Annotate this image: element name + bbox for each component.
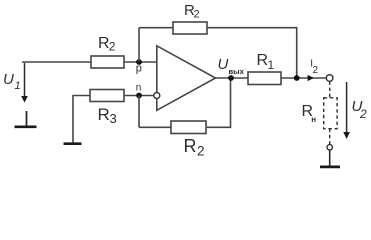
dashed lead from load: [329, 129, 331, 145]
resistor R3: [90, 90, 124, 102]
svg-text:2: 2: [194, 9, 200, 21]
svg-text:p: p: [136, 63, 142, 75]
wire R3 to ground: [73, 96, 90, 143]
wire op-amp output: [216, 77, 249, 79]
resistor R2 left: [91, 56, 124, 68]
ground input: [15, 111, 37, 127]
wire p node up to top feedback: [138, 28, 140, 62]
svg-text:вых: вых: [229, 67, 245, 76]
svg-text:R: R: [184, 136, 197, 156]
svg-text:1: 1: [15, 80, 21, 92]
svg-text:2: 2: [197, 144, 205, 159]
svg-text:1: 1: [268, 58, 275, 72]
svg-text:R: R: [257, 52, 269, 69]
node Uvyh: [228, 75, 234, 81]
svg-text:U: U: [218, 56, 229, 73]
resistor R2 top: [173, 22, 207, 34]
node n: [136, 93, 142, 99]
wire top feedback left: [139, 27, 173, 29]
wire bottom feedback left: [139, 126, 171, 128]
svg-text:2: 2: [109, 40, 116, 54]
wire R3 to op-amp n input: [124, 95, 153, 97]
svg-text:н: н: [311, 115, 316, 124]
wire bottom feedback right: [206, 78, 231, 127]
svg-text:U: U: [3, 71, 14, 88]
ground output: [320, 166, 340, 169]
dashed lead to load: [329, 81, 331, 97]
wire top feedback right: [207, 28, 297, 78]
voltage arrow U1: [21, 63, 28, 103]
terminal bottom: [327, 145, 332, 150]
voltage arrow U2: [343, 82, 350, 139]
wire R1 to output terminal: [281, 77, 326, 79]
terminal top: [326, 75, 333, 82]
ground R3: [64, 142, 82, 145]
svg-text:2: 2: [359, 107, 367, 121]
inverting input bubble: [154, 93, 160, 99]
wire terminal to ground: [329, 150, 331, 166]
resistor R1: [248, 72, 281, 85]
wire n node down to bottom feedback: [138, 96, 140, 128]
svg-text:2: 2: [313, 65, 319, 76]
wire R2 to op-amp p input: [124, 61, 156, 63]
svg-text:n: n: [136, 83, 142, 94]
wire input U1 to R2: [22, 61, 91, 63]
op-amp triangle: [157, 46, 216, 111]
resistor R2 bottom: [171, 121, 206, 134]
svg-text:3: 3: [110, 111, 117, 126]
load resistor Rn dashed: [324, 98, 337, 129]
current arrow I2: [308, 75, 314, 81]
svg-text:R: R: [98, 105, 110, 124]
node I2: [294, 75, 300, 81]
node p: [136, 59, 142, 65]
